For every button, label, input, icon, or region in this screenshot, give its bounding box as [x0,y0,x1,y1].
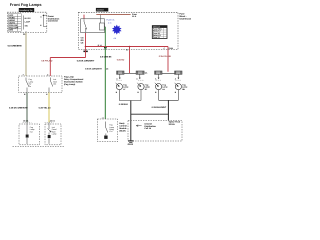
wire labels under relay [81,37,85,45]
svg-text:D6 C6: D6 C6 [23,119,28,122]
svg-text:0.35 BLK: 0.35 BLK [119,103,129,106]
headlamp dimmer switch note text [48,15,60,22]
svg-text:A6 C6: A6 C6 [50,119,55,122]
svg-text:SP105: SP105 [169,123,176,126]
fog lamp switch dashed box [19,76,62,93]
BCM internal switch [105,122,108,136]
svg-text:Front Fog Lamps: Front Fog Lamps [10,2,42,7]
wire green to BCM [104,47,106,120]
fog switch contact 1 [26,78,29,93]
splice S105 dot [129,46,131,48]
fog switch internal text [29,78,58,88]
svg-text:On: On [29,85,31,88]
splice bar right pair [156,72,181,74]
svg-text:(BCM): (BCM) [119,129,125,132]
svg-text:Ind: Ind [30,130,33,133]
indicator module dashed box left [19,124,40,145]
fog switch contact 2 [49,78,53,93]
svg-text:(Fog Lamp): (Fog Lamp) [64,83,75,86]
headlamp switch position table [9,14,22,31]
BCM coil block [104,136,107,139]
underhood fuse block dashed box [78,12,178,49]
relay contact [84,19,86,32]
inline connector box left B [136,71,144,74]
ground bus right pair [159,99,179,101]
headlamp switch label box [19,8,34,12]
fuse label [132,13,138,18]
fog lamp RF [137,83,144,90]
svg-text:S1: S1 [126,49,128,52]
fuse block name text [180,13,192,21]
red feed bus wire [86,46,169,48]
ground drop left (0.35 BLK) [130,101,132,141]
inline connector box right A [155,71,162,74]
svg-text:0.35 DK GRN/WHT: 0.35 DK GRN/WHT [9,107,28,110]
headlamp switch S1 dashed box [7,12,47,32]
wire red lamp feed right [167,47,169,72]
pin B labels below lamps [116,91,177,94]
svg-text:0.8 DK GRN/WHT: 0.8 DK GRN/WHT [85,67,102,70]
fuse block mini table [152,26,167,39]
blue connector star [112,25,122,35]
connector blob on red feed [83,51,87,53]
ground bus left pair [119,100,141,102]
fog switch note text [64,76,84,86]
relay coil [100,23,105,30]
fog switch pin labels bottom [24,93,48,96]
stub to lamp 2 [139,74,141,78]
svg-text:DIM: DIM [9,29,13,32]
BCM dashed box [97,119,117,142]
grommet on green wire at box edge [104,47,107,48]
svg-text:Headlamp Sw: Headlamp Sw [20,9,33,12]
svg-text:0.8 PPL/RD: 0.8 PPL/RD [41,60,53,63]
inline connector box left A [117,71,124,74]
wire red lamp feed left [129,47,131,74]
ground wire lamp 1 [118,90,120,101]
wire fuse to relay pin 30 (red) [83,15,85,19]
wire 0.35 YEL from fog switch [48,93,50,123]
fog lamp LR [155,83,162,90]
svg-text:DETAILS: DETAILS [153,26,161,29]
ground G102 [128,140,134,142]
ground wire lamp 2 [140,90,142,101]
svg-text:15 A: 15 A [132,15,137,18]
inline connector box right B [175,71,182,74]
wire red feed down [85,47,87,58]
svg-text:Cell 14: Cell 14 [144,127,151,130]
ground wire lamp 4 [177,90,179,101]
svg-text:D 14: D 14 [98,44,102,47]
lamp connector dashes [116,79,181,81]
indicator lamp element [26,123,28,135]
relay output wire red pin 87 [85,33,87,47]
svg-text:0.35 BLK/WHT: 0.35 BLK/WHT [152,106,167,109]
svg-text:0.8 DK GRN/WHT: 0.8 DK GRN/WHT [77,60,95,63]
fog lamp LF [116,83,123,90]
svg-text:0.35 PPL/RD: 0.35 PPL/RD [159,55,172,58]
ground drop right [167,100,169,120]
svg-text:0.35 RD: 0.35 RD [117,59,125,62]
svg-text:Out: Out [53,83,56,86]
instrument cluster bottom dashed edge [13,145,66,147]
BCM note text [119,122,127,132]
stub to lamp 3 [158,74,160,78]
svg-text:Lamp: Lamp [52,133,57,136]
headlamp switch contacts [24,15,47,29]
svg-text:A 15: A 15 [108,22,112,25]
relay pin 86 feed [100,15,102,19]
pin A labels above lamps [116,77,177,80]
svg-text:0.8 GRN/BRN: 0.8 GRN/BRN [8,45,22,48]
svg-text:G102: G102 [128,143,134,146]
splice pack label [169,121,181,126]
connector dashes at cluster [23,122,54,124]
wire 0.35 DK GRN/WHT from fog switch [26,93,28,123]
pin F10 stub below headlamp switch [25,31,27,32]
stub to lamp 1 [119,74,121,78]
svg-text:Fuse 31: Fuse 31 [153,36,160,39]
fog switch pin labels top [23,73,49,76]
svg-text:Underhood: Underhood [180,18,192,21]
svg-text:B FOG: B FOG [25,17,32,20]
svg-text:S105: S105 [169,47,173,50]
wire 0.8 GRN from headlamp switch (olive) [25,33,27,76]
fog lamp relay K1 box [81,19,105,33]
fog lamp RR [175,83,182,90]
svg-text:0.8 GRN 85: 0.8 GRN 85 [100,55,112,58]
svg-text:LAMP: LAMP [25,20,31,23]
ground tie wire [131,113,169,115]
svg-text:Connector: Connector [48,20,58,23]
wire red feed to fog switch [49,58,51,77]
svg-text:Fuse 5 A: Fuse 5 A [107,19,116,22]
fuse feed wire (brown) [96,14,130,16]
svg-text:A5: A5 [106,67,108,70]
svg-text:SW: SW [25,24,28,27]
svg-text:0.35 YEL 23: 0.35 YEL 23 [39,107,52,110]
stub to lamp 4 [177,74,179,78]
svg-text:Junction: Junction [96,9,103,12]
ground distribution note with arrow [144,122,156,130]
splice bar left pair [117,72,142,74]
wire red feed horizontal [50,57,85,59]
svg-text:A4: A4 [102,116,104,119]
illumination lamp element [48,123,50,130]
underhood fuse block label box [96,8,108,12]
splice pack dashed box [128,121,182,142]
cluster dashed box right [45,124,61,145]
ground wire lamp 3 [158,90,160,101]
relay coil ground wire green (inside box) [104,27,106,47]
splice dot at relay output [85,46,87,48]
